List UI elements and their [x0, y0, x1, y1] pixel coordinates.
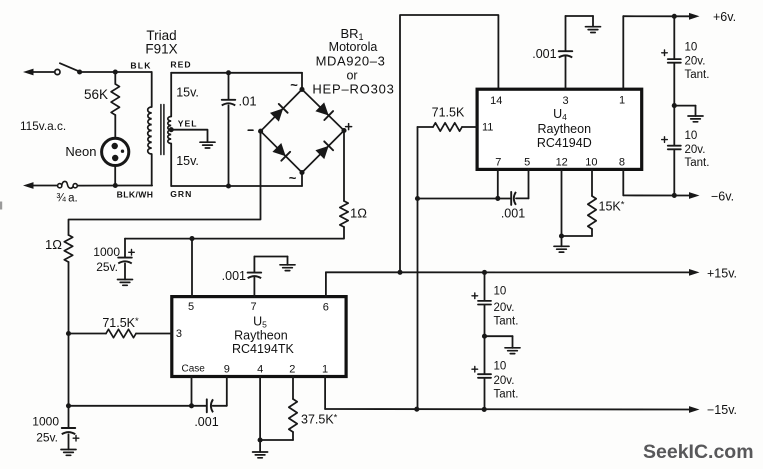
- label -6v.: [711, 189, 734, 203]
- svg-text:Raytheon: Raytheon: [538, 122, 592, 136]
- capacitor .001 minus rail: [207, 399, 213, 412]
- label F91X: [145, 42, 177, 57]
- svg-text:20v.: 20v.: [494, 302, 515, 314]
- wire pin7 cap to ground: [254, 257, 287, 265]
- node x417 rail to -15V: [414, 407, 419, 412]
- wire bridge bottom to rail: [301, 173, 303, 187]
- svg-text:F91X: F91X: [145, 42, 177, 57]
- svg-text:10: 10: [685, 42, 698, 54]
- svg-text:11: 11: [482, 121, 493, 133]
- label .001 U4 pin7-5: [501, 207, 525, 221]
- wire minus rail left segment: [69, 405, 206, 407]
- label + tant3: [472, 293, 478, 299]
- wire +15V to U4 pin14 rail: [400, 15, 498, 272]
- label 15v. upper: [176, 86, 199, 100]
- svg-text:37.5K*: 37.5K*: [301, 413, 338, 427]
- transformer T1 primary winding: [148, 72, 152, 186]
- capacitor 1000uF 25v upper: [118, 239, 132, 280]
- node x400 rail to +15V: [397, 270, 402, 275]
- transformer T1 core: [161, 105, 164, 155]
- wire center tap to ground: [171, 130, 207, 143]
- label 10 tant2: [685, 130, 698, 142]
- capacitor 10uF 20v Tant lower2: [478, 374, 491, 378]
- svg-text:MDA920–3: MDA920–3: [316, 54, 386, 69]
- node switch output junction: [77, 69, 82, 74]
- wire U5 pin4 riser: [259, 377, 261, 441]
- svg-text:.001: .001: [532, 47, 556, 61]
- wire tant chain upper: [673, 16, 675, 58]
- label U4 pin 14: [490, 95, 502, 107]
- label + tant2: [662, 137, 668, 143]
- label 10 tant1: [685, 42, 698, 54]
- label 15K*: [599, 200, 625, 214]
- svg-text:20v.: 20v.: [494, 375, 515, 387]
- svg-text:15v.: 15v.: [176, 86, 199, 100]
- label Neon: [65, 144, 96, 159]
- label 25v. upper: [96, 260, 118, 274]
- resistor 1-ohm right: [340, 201, 348, 227]
- svg-text:1Ω: 1Ω: [350, 206, 367, 221]
- wire bridge minus down-left: [69, 131, 261, 235]
- svg-text:6: 6: [323, 302, 329, 314]
- label 1-ohm right: [350, 206, 367, 221]
- svg-text:Tant.: Tant.: [494, 388, 519, 400]
- label +6v.: [713, 10, 736, 24]
- node bridge top vertex: [299, 87, 304, 92]
- wire left rail to cap: [68, 406, 70, 428]
- wire tant chain lower: [673, 150, 675, 195]
- svg-text:~: ~: [290, 78, 298, 93]
- scan artifact left edge: [0, 202, 2, 210]
- diode D4 (bottom-right edge): [315, 141, 333, 159]
- svg-text:.01: .01: [239, 94, 257, 109]
- label MDA920-3: [316, 54, 386, 69]
- label U5 pin 5: [188, 301, 194, 313]
- capacitor .001 U5 pin7: [248, 257, 262, 297]
- svg-text:or: or: [346, 69, 357, 83]
- label + right: [346, 124, 352, 130]
- wire 1-ohm to plus rail: [125, 227, 344, 239]
- label BR1: [340, 26, 363, 42]
- svg-text:15K*: 15K*: [599, 200, 625, 214]
- node tant chain top +15V: [482, 270, 487, 275]
- op-amp U4 Raytheon RC4194D box: [477, 89, 642, 169]
- node case junction: [189, 403, 194, 408]
- label + upper cap: [129, 250, 135, 256]
- transformer T1 secondary winding: [168, 73, 171, 186]
- wire x417 rail: [417, 127, 419, 409]
- label 71.5K: [432, 106, 465, 120]
- resistor 15K*: [588, 196, 596, 229]
- ground tant15 mid: [505, 348, 520, 354]
- label U5 pin 7: [250, 301, 256, 313]
- node bridge bottom vertex: [299, 170, 304, 175]
- label U4 pin 12: [556, 157, 568, 169]
- label RED: [170, 59, 191, 69]
- label U5 name: [253, 315, 267, 330]
- wire 71.5K* to left rail: [69, 333, 107, 335]
- wire secondary top rail: [171, 72, 302, 74]
- label U4 pin 10: [585, 157, 597, 169]
- arrow +6V: [689, 13, 700, 20]
- wire secondary bottom rail: [171, 185, 302, 187]
- svg-text:71.5K*: 71.5K*: [102, 316, 139, 330]
- wire U4 pin1 riser: [622, 16, 624, 89]
- label .001 U4 pin3: [532, 47, 556, 61]
- resistor 37.5K*: [289, 399, 297, 432]
- wire U4 pin11 lead: [462, 126, 477, 128]
- node tant mid +6 junction: [672, 103, 677, 108]
- ground U5 pin7 cap: [280, 265, 295, 271]
- svg-text:Motorola: Motorola: [329, 40, 378, 54]
- label YEL: [178, 118, 198, 128]
- svg-text:Tant.: Tant.: [685, 157, 710, 169]
- wire bridge plus down: [343, 131, 345, 202]
- capacitor 10uF 20v Tant upper2: [668, 146, 681, 150]
- svg-text:1: 1: [619, 95, 625, 107]
- label U5 pin 3: [176, 328, 182, 340]
- svg-text:3: 3: [562, 95, 568, 107]
- label 115v.a.c.: [20, 119, 66, 133]
- op-amp U5 Raytheon RC4194TK box: [172, 297, 346, 377]
- node pin12 ground junction: [559, 233, 564, 238]
- label + tant4: [472, 366, 478, 372]
- svg-text:25v.: 25v.: [96, 260, 118, 274]
- bridge BR1 frame: [261, 89, 344, 172]
- svg-text:¾ a.: ¾ a.: [56, 193, 77, 205]
- svg-text:+6v.: +6v.: [713, 10, 736, 24]
- svg-text:5: 5: [188, 301, 194, 313]
- label U5 Case: [182, 363, 206, 374]
- wire cap to pin5 riser: [516, 197, 529, 199]
- ground upper 1000uF: [118, 280, 133, 286]
- label U5 pin 9: [224, 364, 230, 376]
- label Tant. tant4: [494, 388, 519, 400]
- wire tant mid to ground: [674, 106, 695, 116]
- node .01 bottom junction: [226, 183, 231, 188]
- svg-text:1000: 1000: [32, 415, 59, 429]
- wire U4 pin10 riser: [591, 169, 593, 196]
- svg-text:115v.a.c.: 115v.a.c.: [20, 119, 66, 133]
- svg-text:7: 7: [250, 301, 256, 313]
- resistor 71.5K* U5 pin3: [106, 329, 136, 337]
- label + lower cap: [73, 435, 79, 441]
- svg-text:Neon: Neon: [65, 144, 96, 159]
- node neon bottom junction: [113, 183, 118, 188]
- ground tant mid upper: [688, 116, 703, 122]
- ground U5 pin4: [253, 452, 268, 458]
- label 1000 lower: [32, 415, 59, 429]
- capacitor .001 U4 pin3: [559, 16, 573, 89]
- svg-text:Tant.: Tant.: [685, 69, 710, 81]
- wire top rail to bridge: [301, 73, 303, 90]
- node minus rail junction: [66, 403, 71, 408]
- wire tant15 mid to ground: [485, 336, 513, 348]
- label Tant. tant3: [494, 315, 519, 327]
- svg-text:BLK: BLK: [130, 60, 151, 70]
- label BLK/WH: [117, 190, 154, 200]
- diode D3 (left-bottom edge): [272, 143, 290, 161]
- svg-text:.001: .001: [501, 207, 525, 221]
- svg-text:.001: .001: [194, 415, 218, 429]
- label 15v. lower: [176, 154, 199, 168]
- label U4 name: [553, 107, 567, 122]
- wire AC line bottom lead with arrow: [23, 182, 58, 189]
- svg-text:56K: 56K: [84, 87, 108, 102]
- label U4 pin 11: [482, 121, 493, 133]
- ground center tap: [200, 142, 215, 148]
- wire pin12 ground stub: [561, 236, 563, 246]
- label Triad: [146, 28, 176, 43]
- ground U4 pin3: [586, 27, 601, 33]
- svg-text:SeekIC.com: SeekIC.com: [643, 441, 754, 463]
- wire -6V line: [623, 194, 691, 196]
- svg-text:5: 5: [524, 157, 530, 169]
- wire tant chain mid upper: [673, 64, 675, 106]
- label + tant1: [662, 50, 668, 56]
- node bridge right vertex: [341, 128, 346, 133]
- wire U5 pin1 riser: [324, 377, 326, 410]
- label U5 pin 2: [289, 364, 295, 376]
- svg-text:4: 4: [257, 364, 263, 376]
- label U5 pin 4: [257, 364, 263, 376]
- svg-text:71.5K: 71.5K: [432, 106, 465, 120]
- wire +6V line: [623, 15, 691, 17]
- label 71.5K*: [102, 316, 139, 330]
- svg-text:9: 9: [224, 364, 230, 376]
- svg-text:RED: RED: [170, 59, 191, 69]
- wire neon to bottom rail: [114, 166, 116, 186]
- wire U4 pin12 riser: [561, 169, 563, 236]
- node pin3 resistor junction: [66, 331, 71, 336]
- svg-text:20v.: 20v.: [685, 56, 706, 68]
- wire 15K* to pin12 junction: [562, 229, 593, 236]
- wire tant15 upper: [484, 272, 486, 300]
- svg-text:Raytheon: Raytheon: [234, 329, 288, 343]
- wire pin3 cap to ground: [566, 16, 594, 27]
- capacitor .001 U4 pin7-5: [511, 192, 516, 205]
- node tant chain top +6V: [672, 14, 677, 19]
- capacitor 10uF 20v Tant upper1: [668, 59, 681, 63]
- node tant chain bottom -15V: [482, 407, 487, 412]
- label 20v. tant3: [494, 302, 515, 314]
- label U4 RC4194D: [537, 136, 592, 150]
- svg-text:2: 2: [289, 364, 295, 376]
- label U4 Raytheon: [538, 122, 592, 136]
- svg-text:YEL: YEL: [178, 118, 198, 128]
- svg-text:−6v.: −6v.: [711, 189, 734, 203]
- neon lamp NE-1 body: [102, 138, 129, 165]
- wire 71.5K to x417 rail: [418, 126, 434, 128]
- wire U4 pin7 riser: [497, 169, 499, 198]
- label 1-ohm left: [45, 237, 62, 252]
- resistor 71.5K U4 pin11: [433, 123, 462, 131]
- label or: [346, 69, 357, 83]
- node pin7 junction: [495, 196, 500, 201]
- svg-text:HEP–RO303: HEP–RO303: [312, 82, 394, 97]
- label 3/4 a.: [56, 193, 77, 205]
- wire tant15 mid upper: [484, 306, 486, 337]
- wire fuse to transformer primary bottom: [77, 185, 152, 187]
- svg-text:1: 1: [322, 364, 328, 376]
- label U5 pin 6: [323, 302, 329, 314]
- wire U5 pin9 riser: [226, 377, 228, 406]
- label +15v.: [707, 266, 737, 280]
- label ~ top: [290, 78, 298, 93]
- wire +15V line: [326, 271, 691, 273]
- wire U4 pin5 riser: [528, 169, 530, 198]
- node center tap: [169, 127, 174, 132]
- wire U5 pin2 riser: [292, 377, 294, 400]
- wire U5 case riser: [191, 377, 193, 406]
- svg-text:25v.: 25v.: [36, 431, 58, 445]
- node tant chain bottom -6V: [672, 193, 677, 198]
- label U4 pin 1: [619, 95, 625, 107]
- arrow -15V: [689, 406, 700, 413]
- ground U4 pin12: [554, 246, 569, 252]
- svg-text:BLK/WH: BLK/WH: [117, 190, 154, 200]
- svg-text:20v.: 20v.: [685, 144, 706, 156]
- capacitor 1000uF 25v lower: [62, 428, 76, 450]
- wire U5 pin5 riser: [191, 239, 193, 297]
- label U4 pin 8: [619, 157, 625, 169]
- label 56K: [84, 87, 108, 102]
- label BLK: [130, 60, 151, 70]
- watermark SeekIC.com: [643, 441, 754, 463]
- svg-text:Case: Case: [182, 363, 206, 374]
- ground lower 1000uF: [61, 450, 76, 456]
- label 1000 upper: [93, 245, 120, 259]
- label Tant. tant2: [685, 157, 710, 169]
- node bridge left vertex: [258, 129, 263, 134]
- label - left: [248, 129, 253, 131]
- capacitor 10uF 20v Tant lower1: [478, 301, 491, 305]
- svg-text:10: 10: [494, 285, 507, 297]
- wire left rail mid: [68, 262, 70, 406]
- svg-text:~: ~: [289, 171, 297, 186]
- diode D1 (left-top edge): [270, 104, 288, 122]
- label Tant. tant1: [685, 69, 710, 81]
- label .001 U5 pin7: [222, 269, 246, 283]
- label -15v.: [707, 403, 737, 417]
- svg-text:10: 10: [585, 157, 597, 169]
- arrow -6V: [689, 192, 700, 199]
- label 10 tant4: [494, 360, 507, 372]
- svg-text:8: 8: [619, 157, 625, 169]
- svg-text:RC4194TK: RC4194TK: [232, 342, 294, 356]
- label GRN: [170, 189, 192, 199]
- node .01 top junction: [226, 70, 231, 75]
- label .001 minus rail: [194, 415, 218, 429]
- capacitor .01: [222, 73, 236, 186]
- wire cap to pin9 riser: [213, 405, 227, 407]
- wire tant15 mid lower: [484, 336, 486, 373]
- svg-text:14: 14: [490, 95, 502, 107]
- svg-text:GRN: GRN: [170, 189, 192, 199]
- svg-text:3: 3: [176, 328, 182, 340]
- wire U5 pin3 to 71.5K*: [136, 333, 172, 335]
- label .01: [239, 94, 257, 109]
- svg-text:+15v.: +15v.: [707, 266, 737, 280]
- svg-text:−15v.: −15v.: [707, 403, 737, 417]
- label U4 pin 7: [495, 157, 501, 169]
- label 25v. lower: [36, 431, 58, 445]
- svg-text:15v.: 15v.: [176, 154, 199, 168]
- wire U4 pin8 riser: [622, 169, 624, 195]
- svg-text:Tant.: Tant.: [494, 315, 519, 327]
- wire 37.5K* to bottom link: [292, 432, 294, 440]
- label 10 tant3: [494, 285, 507, 297]
- label 20v. tant1: [685, 56, 706, 68]
- arrow +15V: [689, 269, 700, 276]
- wire 37.5K* bottom link: [260, 439, 293, 441]
- resistor 56K: [111, 72, 119, 138]
- wire -15V line: [325, 408, 691, 411]
- svg-text:12: 12: [556, 157, 568, 169]
- fuse F1 3/4a: [58, 181, 78, 188]
- svg-text:10: 10: [494, 360, 507, 372]
- label HEP-RO303: [312, 82, 394, 97]
- svg-text:.001: .001: [222, 269, 246, 283]
- label U4 pin 3: [562, 95, 568, 107]
- label 20v. tant2: [685, 144, 706, 156]
- svg-text:7: 7: [495, 157, 501, 169]
- node 56K top junction: [113, 69, 118, 74]
- label U5 pin 1: [322, 364, 328, 376]
- label U4 pin 5: [524, 157, 530, 169]
- svg-text:1Ω: 1Ω: [45, 237, 62, 252]
- wire pin4 ground stub: [259, 440, 261, 452]
- node pin4 ground junction: [258, 437, 263, 442]
- wire top rail switch to transformer: [80, 71, 152, 73]
- label 20v. tant4: [494, 375, 515, 387]
- wire U5 pin6 riser: [325, 272, 327, 296]
- svg-text:1000: 1000: [93, 245, 120, 259]
- label U5 RC4194TK: [232, 342, 294, 356]
- label Motorola: [329, 40, 378, 54]
- wire tant15 lower: [484, 379, 486, 410]
- resistor 1-ohm left: [64, 235, 72, 262]
- label ~ bottom: [289, 171, 297, 186]
- wire tant chain mid lower: [673, 106, 675, 145]
- svg-text:RC4194D: RC4194D: [537, 136, 592, 150]
- label 37.5K*: [301, 413, 338, 427]
- switch S1: [55, 63, 79, 74]
- node U5 pin5 riser junction: [189, 236, 194, 241]
- neon lamp electrodes: [112, 143, 125, 161]
- node x417 pin7 line junction: [415, 196, 420, 201]
- wire pin7/pin5 line: [418, 198, 511, 200]
- wire AC line top lead with arrow: [23, 69, 55, 76]
- diode D2 (top-right edge): [315, 102, 333, 120]
- svg-text:10: 10: [685, 130, 698, 142]
- label U5 Raytheon: [234, 329, 288, 343]
- node tant15 mid junction: [482, 334, 487, 339]
